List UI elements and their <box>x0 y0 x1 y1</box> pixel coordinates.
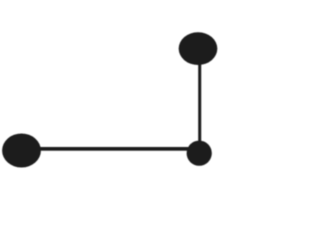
junction disc <box>187 141 212 166</box>
horizontal rod <box>30 147 195 151</box>
vertical rod <box>198 60 201 148</box>
top disc <box>179 32 218 65</box>
left disc <box>2 134 41 168</box>
